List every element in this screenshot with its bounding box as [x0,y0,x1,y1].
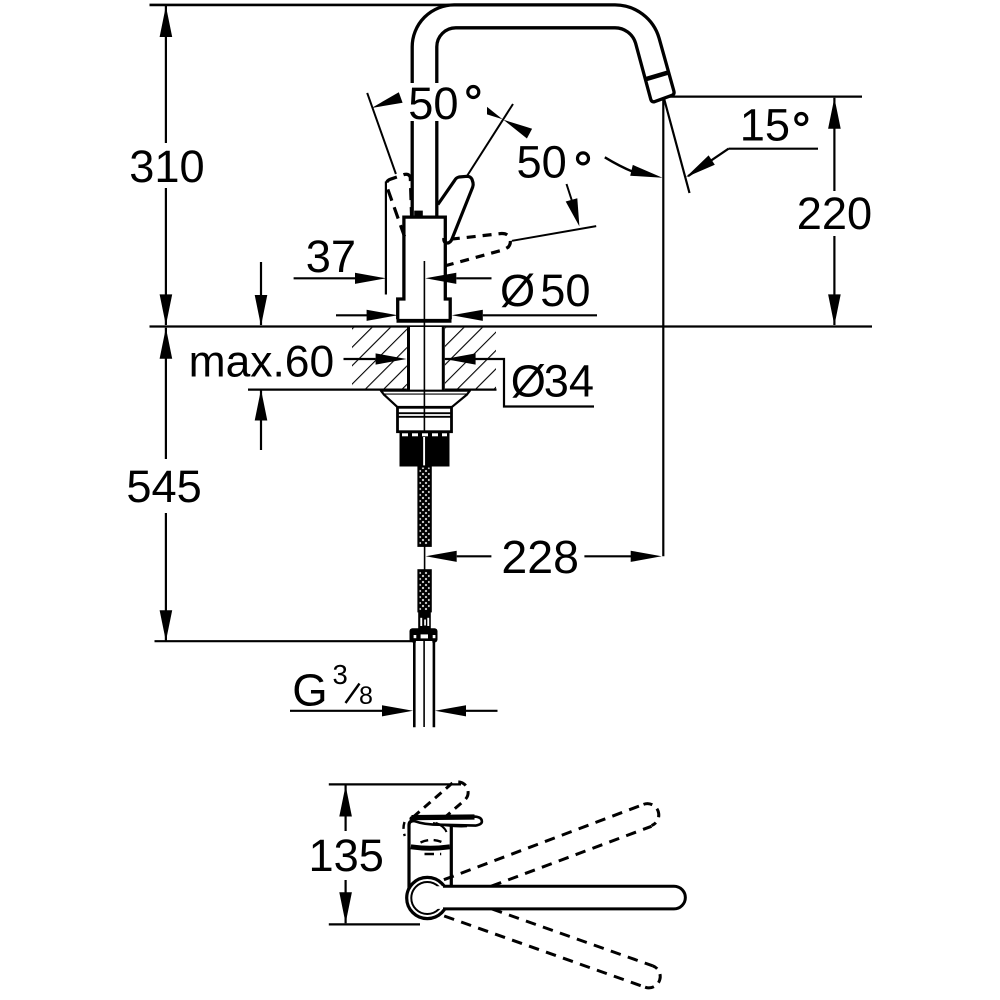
svg-text:228: 228 [501,531,579,583]
spout tip vertical reference line [662,97,664,556]
solid spout (top view) [427,886,685,909]
svg-text:Ø: Ø [500,265,535,316]
swivel bearing circle [407,877,448,918]
threaded black section [400,432,450,467]
svg-text:50: 50 [517,136,567,187]
connection tube [414,641,434,727]
svg-text:220: 220 [797,188,872,239]
arrowhead pointing down to axis line [566,198,580,226]
faucet: dashed horizontal lever position [442,233,511,266]
135 dimension [309,784,462,924]
countertop hatched slab [150,327,873,390]
upper braided hose [419,467,431,546]
left arrowhead [372,92,403,108]
diameter 34 label with leader [344,353,595,406]
545 dimension [126,328,411,642]
lower braided hose [419,570,431,611]
50 degree dim #1 (handle swing, upper label) [367,92,532,176]
svg-text:3: 3 [333,659,348,690]
faucet body [397,211,452,321]
svg-text:8: 8 [359,682,373,710]
svg-text:50: 50 [540,265,590,316]
15 degree tilted stream line [664,100,689,194]
handle blade (top view) [411,817,482,832]
washer plate under slab [381,391,470,395]
dashed raised-handle position (top view) [413,782,468,817]
hose connector nut [410,628,438,642]
svg-text:G: G [292,664,327,715]
svg-text:Ø: Ø [511,356,546,407]
mounting shank through slab [407,327,445,391]
310 dimension [129,6,204,325]
faucet tube (riser + spout) [412,5,674,217]
hidden cartridge dashes [425,853,442,856]
left lever axis line [367,93,396,174]
dashed hidden handle edge left of body [403,822,404,836]
svg-text:310: 310 [129,141,204,192]
leader tail [567,184,573,201]
mounting nut [398,407,452,431]
aerator joint band [645,72,669,79]
dashed spout position down-right [444,909,660,988]
slab bottom edge line [248,389,497,391]
countertop surface line [150,325,873,327]
hose-end reference line [155,640,412,642]
37 dimension [294,231,492,284]
swivel arc with arrow [605,157,663,178]
max.60 dimension [189,262,335,450]
svg-text:50: 50 [408,78,458,129]
37-dim extension line at left lever edge [385,182,387,295]
dashed-lever axis line [512,226,596,241]
right lever axis line [467,104,513,176]
50 degree dim #2 (lever lift, lower label) [512,136,596,240]
svg-text:34: 34 [544,356,594,407]
crimp ferrule [418,611,431,629]
centerline [423,261,425,544]
svg-text:37: 37 [306,231,356,282]
svg-text:15: 15 [740,99,790,150]
centerline through hose gap [424,546,426,571]
faucet: left (dashed) lever position [386,174,411,236]
top reference line (310 dim, top of faucet) [150,4,456,7]
228 dimension [426,531,662,583]
body (top view) [403,821,451,889]
cone [384,395,467,408]
diameter 50 dimension [336,265,597,321]
50 degree label #1 (over the pipe) [406,78,487,129]
svg-text:135: 135 [309,830,384,881]
15 degree label and leader [686,99,818,177]
bowtie double arrow on right axis [474,101,503,120]
black tab on body top [414,211,423,216]
dashed hidden dome arc [421,840,444,843]
220 dimension [668,97,872,326]
svg-text:max.60: max.60 [189,338,335,387]
faucet: solid right lever [438,176,473,243]
G 3/8 label [290,659,498,716]
svg-text:545: 545 [126,461,201,512]
black band (pivot dome) [411,847,450,848]
dashed spout position up-right [444,804,659,887]
